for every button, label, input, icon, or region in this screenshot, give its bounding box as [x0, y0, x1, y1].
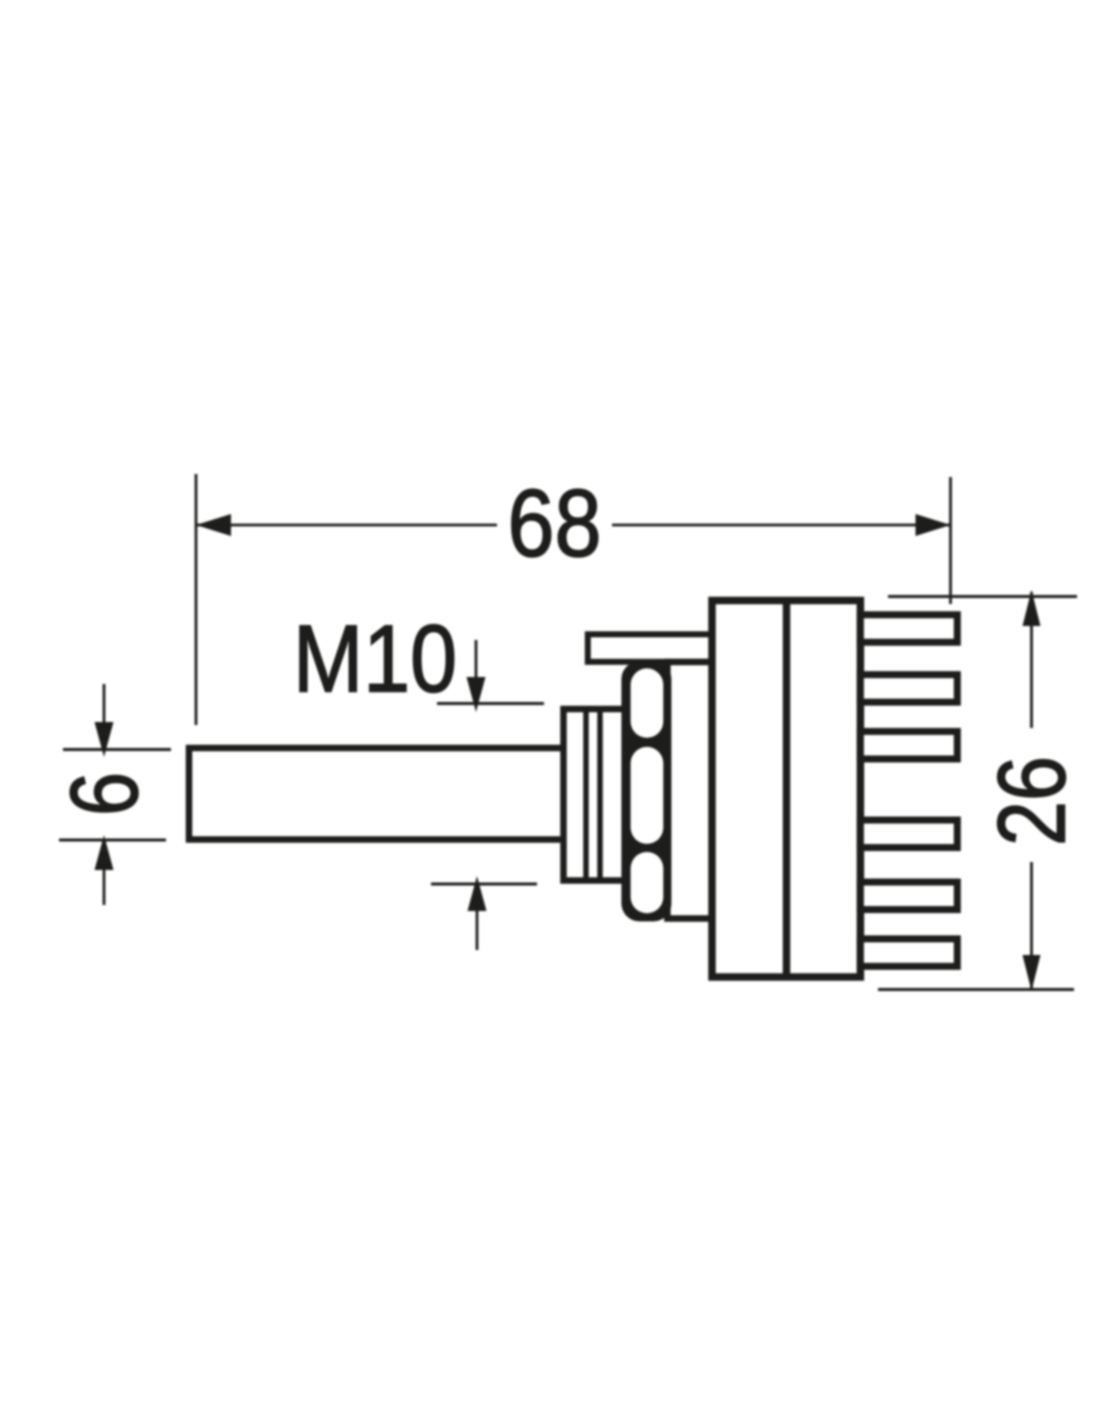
body divider — [783, 600, 791, 977]
pin 2 — [860, 675, 957, 703]
dim 6 lower tick — [59, 839, 166, 842]
dim 26 lower tick — [878, 988, 1074, 991]
dim 6 upper arrowhead — [95, 722, 114, 757]
svg-text:6: 6 — [51, 772, 158, 816]
nut facet 2 — [631, 747, 664, 844]
dim 26 upper arrowhead — [1023, 590, 1041, 626]
dim 6 lower arrow stem — [103, 860, 106, 905]
dim 68 line right segment — [612, 524, 951, 527]
pin 4 — [860, 820, 957, 848]
switch body — [712, 601, 860, 978]
thread line B — [597, 710, 603, 879]
dim 6 lower arrowhead — [95, 835, 114, 870]
dim 26 upper tick — [888, 595, 1077, 598]
svg-text:26: 26 — [979, 756, 1086, 846]
dim M10 upper arrow stem — [475, 640, 478, 690]
dim M10 lower tick — [431, 883, 537, 886]
dim M10 lower arrowhead — [468, 876, 487, 911]
pin 5 — [860, 882, 957, 910]
dim 6 upper arrow stem — [103, 684, 106, 740]
nut facet 1 — [631, 668, 664, 737]
dim 26 upper arrow stem — [1030, 592, 1033, 728]
dim M10 lower arrow stem — [476, 900, 479, 950]
dim 26 lower arrow stem — [1030, 862, 1033, 989]
flag tab — [588, 634, 715, 662]
dim 68 left arrowhead — [196, 514, 231, 536]
dim 68 left extension line — [195, 474, 198, 725]
nut body — [621, 661, 671, 921]
pin 3 — [860, 731, 957, 759]
dim 68 right extension line — [949, 477, 952, 604]
shaft (6 mm) — [189, 748, 565, 840]
thread line A — [583, 710, 589, 879]
dim M10 upper arrowhead — [467, 677, 486, 712]
svg-text:M10: M10 — [293, 606, 457, 713]
pin 1 — [860, 615, 957, 643]
dim 68 line left segment — [196, 524, 497, 527]
dim 26 lower arrowhead — [1023, 955, 1041, 991]
washer — [667, 662, 712, 919]
pin 6 — [860, 939, 957, 967]
dim 68 right arrowhead — [916, 514, 951, 536]
bushing M10 — [564, 709, 631, 881]
svg-text:68: 68 — [508, 470, 602, 577]
dim 6 upper tick — [63, 748, 171, 751]
nut facet 3 — [631, 852, 664, 913]
dim M10 upper tick — [437, 702, 544, 705]
